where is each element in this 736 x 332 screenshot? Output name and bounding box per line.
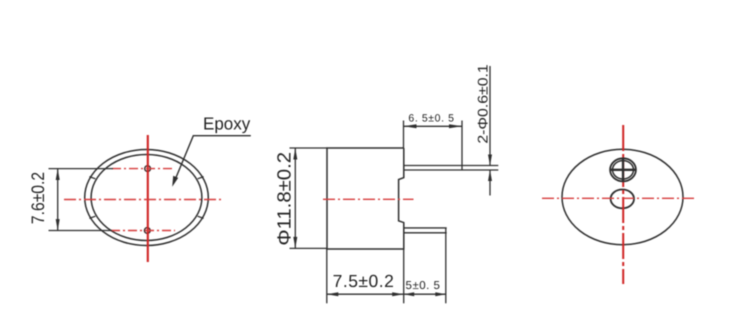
- dimension line 7.5: [327, 293, 404, 295]
- dimension line phi11.8: [294, 148, 296, 248]
- upper pin outer ring: [610, 158, 636, 181]
- bottom pin lower edge: [404, 232, 447, 234]
- lower pin circle: [611, 190, 634, 209]
- dimension line 5: [404, 293, 446, 295]
- upper pin cross horizontal: [610, 169, 635, 171]
- red vertical centerline left view: [147, 135, 149, 262]
- red centerline through top hole: [112, 168, 173, 170]
- extension line phi11.8 top: [290, 147, 328, 149]
- svg-text:5±0. 5: 5±0. 5: [406, 280, 441, 292]
- top hole: [145, 166, 151, 172]
- arrow down to pin top: [488, 155, 492, 166]
- svg-text:Epoxy: Epoxy: [203, 114, 250, 134]
- left view inner ellipse: [91, 155, 202, 241]
- svg-text:7.6±0.2: 7.6±0.2: [28, 172, 48, 224]
- red centerline side view: [323, 198, 414, 200]
- dimension line 2-phi0.6 lower: [489, 170, 491, 196]
- top pin upper edge: [404, 165, 499, 167]
- right view big circle: [562, 149, 683, 244]
- red vertical centerline right view: [622, 125, 624, 284]
- bottom pin upper edge: [404, 227, 447, 229]
- arrow down 7.6: [56, 219, 60, 230]
- svg-text:2-Φ0.6±0.1: 2-Φ0.6±0.1: [475, 64, 491, 144]
- red horizontal centerline left view: [64, 199, 223, 201]
- ring tick lower-right: [198, 216, 204, 218]
- arrow up to pin bottom: [488, 170, 492, 181]
- svg-text:7.5±0.2: 7.5±0.2: [333, 271, 395, 291]
- red centerline through bottom hole: [111, 230, 175, 232]
- Epoxy leader arrow: [172, 176, 178, 187]
- extension line 6.5 right (pin tip): [461, 121, 463, 171]
- extension line 7.5 left: [326, 249, 328, 303]
- arrow down phi11.8: [293, 237, 297, 249]
- arrow up 7.6: [56, 169, 60, 180]
- dimension line 2-phi0.6 upper: [489, 66, 491, 166]
- red horizontal centerline right view: [542, 197, 696, 199]
- arrow right 7.5: [392, 292, 404, 296]
- top pin lower edge: [404, 169, 499, 171]
- svg-text:Φ11.8±0.2: Φ11.8±0.2: [275, 152, 296, 246]
- upper pin cross vertical: [622, 159, 624, 181]
- extension line 6.5 left (body edge extended up): [403, 121, 405, 149]
- dimension line 7.6: [57, 169, 59, 231]
- bottom hole: [144, 228, 150, 234]
- upper pin inner ring: [613, 161, 634, 179]
- ring tick upper-right: [198, 177, 204, 179]
- svg-text:6. 5±0. 5: 6. 5±0. 5: [408, 113, 454, 125]
- arrow left 6.5: [404, 124, 417, 128]
- arrow left 5: [404, 292, 415, 296]
- extension line 5 right: [445, 228, 447, 303]
- ring tick lower-left: [89, 216, 95, 218]
- dimension line 6.5: [404, 125, 463, 127]
- extension line top hole: [49, 168, 114, 170]
- arrow up phi11.8: [293, 148, 297, 160]
- Epoxy leader line: [176, 136, 251, 178]
- body outline side view: [327, 148, 404, 249]
- arrow left 7.5: [327, 292, 339, 296]
- left view outer ellipse: [85, 150, 209, 246]
- extension line phi11.8 bottom: [290, 247, 328, 249]
- extension line bottom hole: [49, 230, 113, 232]
- ring tick upper-left: [89, 177, 95, 179]
- arrow right 5: [435, 292, 446, 296]
- arrow right 6.5: [449, 124, 462, 128]
- extension line 7.5/5 shared middle: [403, 249, 405, 303]
